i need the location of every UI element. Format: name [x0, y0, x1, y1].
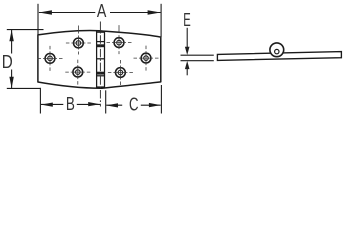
svg-text:C: C	[129, 95, 139, 115]
svg-text:B: B	[66, 94, 75, 114]
svg-text:D: D	[2, 52, 13, 72]
svg-text:E: E	[183, 10, 191, 30]
svg-text:A: A	[97, 1, 107, 21]
